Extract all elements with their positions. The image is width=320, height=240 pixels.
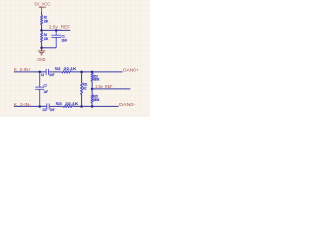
wire R23 to DAN0- — [73, 105, 119, 107]
wire R4 to ground rail — [41, 42, 43, 48]
background — [0, 0, 150, 117]
svg-text:DAN0+: DAN0+ — [123, 68, 139, 73]
junction C1 top — [55, 29, 58, 32]
wire R2 to node REF — [41, 25, 43, 31]
capacitor C1 top lead — [55, 30, 57, 35]
svg-text:680K: 680K — [93, 98, 100, 102]
wire mid node to R25 — [91, 89, 93, 95]
svg-text:680K: 680K — [93, 78, 100, 82]
resistor R23 — [63, 105, 73, 107]
svg-text:GND: GND — [37, 57, 45, 62]
resistor R21 — [81, 83, 83, 95]
wire node REF to right — [42, 29, 71, 31]
svg-text:22.1K: 22.1K — [64, 67, 78, 71]
wire R19 top lead — [91, 72, 93, 73]
power symbol stem — [41, 7, 43, 12]
svg-text:NC: NC — [83, 86, 87, 90]
resistor R4 — [41, 32, 43, 42]
capacitor C10 left plate — [46, 103, 48, 109]
wire R21 bottom lead — [81, 95, 83, 107]
wire R25 bottom lead — [91, 103, 93, 107]
junction node 2.5v_REF — [40, 29, 43, 32]
svg-text:2.5v_REF: 2.5v_REF — [49, 24, 71, 29]
wire C4 to R15 — [49, 71, 62, 73]
svg-text:R4: R4 — [44, 33, 47, 37]
wire R19 to mid node — [91, 81, 93, 89]
capacitor C7 top lead — [39, 72, 41, 87]
svg-text:5V_VCC: 5V_VCC — [35, 1, 51, 6]
junction C7 bottom — [38, 105, 41, 108]
svg-text:C7: C7 — [44, 84, 47, 88]
junction ground rail — [40, 47, 43, 50]
wire 5V to R2 — [41, 12, 43, 15]
capacitor C1 top plate — [51, 34, 61, 36]
svg-text:R15: R15 — [55, 67, 61, 71]
junction C7 top — [38, 71, 41, 74]
svg-text:1nF: 1nF — [44, 90, 49, 94]
svg-text:10nF: 10nF — [61, 38, 67, 42]
svg-text:C10: C10 — [43, 108, 47, 112]
junction R21 bottom — [80, 105, 83, 108]
svg-text:DAN0-: DAN0- — [119, 102, 136, 107]
wire to GND — [41, 48, 43, 51]
capacitor C1 bottom lead — [55, 37, 57, 47]
wire node to R4 — [41, 30, 43, 32]
svg-text:2.5v_REF: 2.5v_REF — [95, 84, 112, 89]
svg-text:10nF: 10nF — [49, 73, 54, 77]
svg-text:22.1K: 22.1K — [65, 102, 79, 106]
resistor R2 — [41, 15, 43, 24]
capacitor C4 left plate — [45, 69, 47, 75]
junction R25 bottom — [91, 105, 94, 108]
resistor R15 — [62, 71, 71, 73]
ground symbol GND — [38, 50, 45, 52]
wire R15 to DAN0+ — [71, 71, 122, 73]
junction R19 top — [91, 71, 94, 74]
wire C10 to R23 — [49, 105, 63, 107]
power symbol bar 5V_VCC — [39, 6, 46, 8]
capacitor C10 right plate — [48, 103, 50, 109]
capacitor C7 bottom lead — [39, 89, 41, 106]
junction mid node 2.5v_REF — [91, 88, 94, 91]
svg-text:10K: 10K — [44, 20, 49, 24]
capacitor C4 right plate — [47, 69, 49, 75]
resistor R19 — [91, 73, 93, 81]
capacitor C1 bottom plate — [51, 36, 61, 38]
svg-text:R2: R2 — [44, 15, 47, 19]
wire ground rail — [42, 47, 57, 49]
capacitor C7 top plate — [35, 86, 44, 88]
wire mid node to 2.5v_REF — [92, 88, 130, 90]
wire K_2-IN+ to C4 — [14, 71, 46, 73]
svg-text:R23: R23 — [56, 102, 62, 106]
resistor R25 — [91, 95, 93, 103]
svg-text:C1: C1 — [61, 34, 64, 38]
wire R21 top lead — [81, 72, 83, 83]
junction R21 top — [80, 71, 83, 74]
svg-text:10K: 10K — [44, 37, 49, 41]
svg-text:C4: C4 — [41, 73, 44, 77]
capacitor C7 bottom plate — [35, 88, 44, 90]
svg-text:10nF: 10nF — [50, 108, 55, 112]
wire K_2-IN- to C10 — [14, 105, 47, 107]
